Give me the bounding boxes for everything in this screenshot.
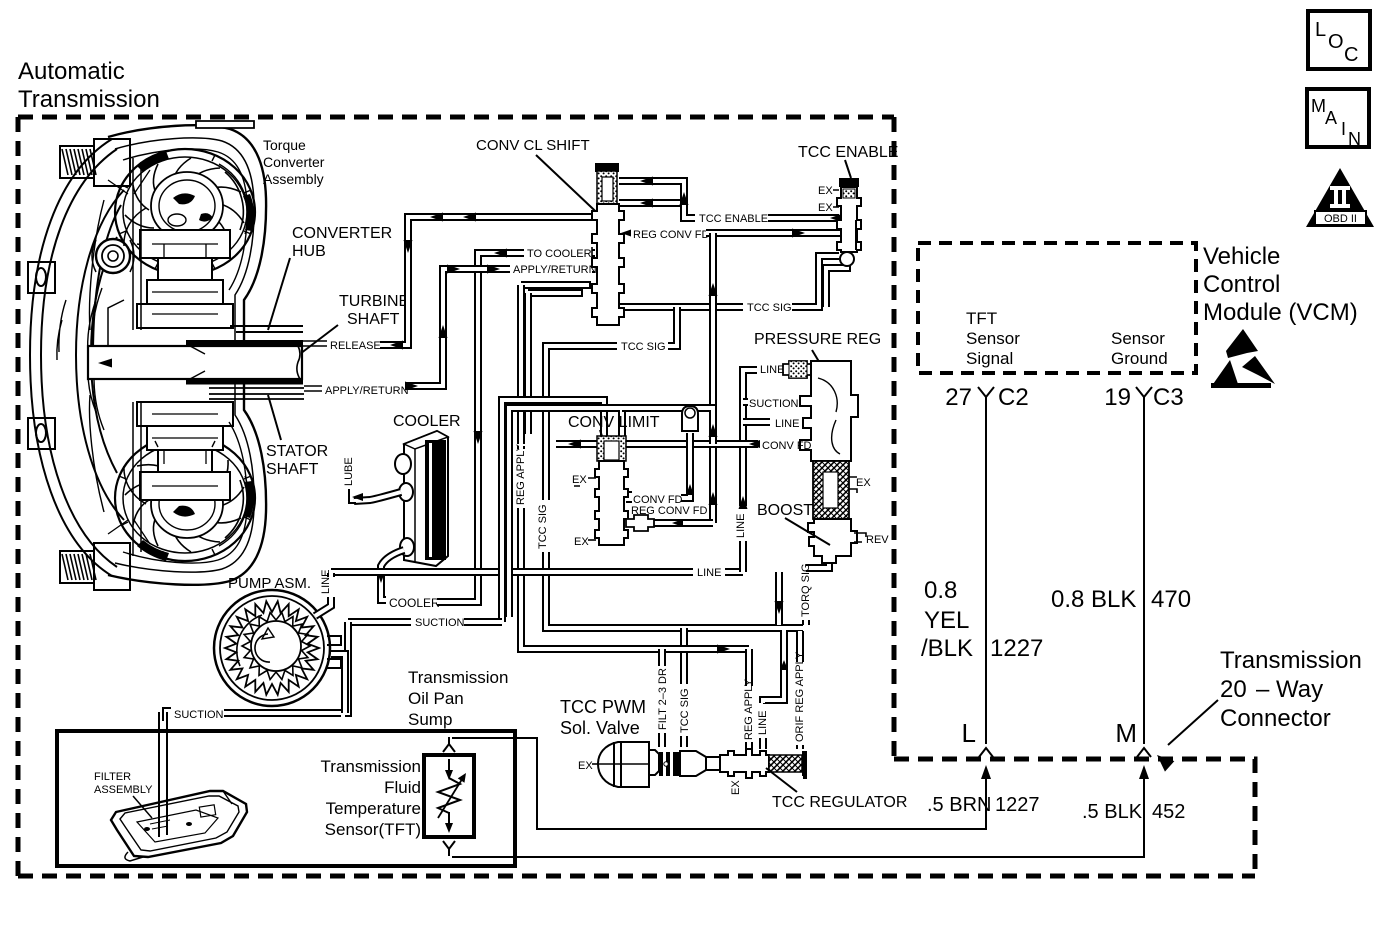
- svg-text:Vehicle: Vehicle: [1203, 243, 1280, 270]
- svg-text:SHAFT: SHAFT: [266, 461, 319, 478]
- svg-text:LINE: LINE: [735, 514, 747, 538]
- svg-text:TCC REGULATOR: TCC REGULATOR: [772, 794, 907, 811]
- svg-text:CONVERTER: CONVERTER: [292, 225, 392, 242]
- svg-text:EX: EX: [818, 202, 833, 214]
- svg-text:EX: EX: [818, 185, 833, 197]
- svg-text:COOLER: COOLER: [393, 413, 461, 430]
- svg-text:.5 BLK: .5 BLK: [1082, 801, 1143, 823]
- svg-text:M: M: [1115, 718, 1137, 748]
- svg-text:Transmission: Transmission: [408, 668, 508, 687]
- svg-text:C3: C3: [1153, 384, 1184, 411]
- svg-text:EX: EX: [856, 477, 871, 489]
- svg-text:CONV FD: CONV FD: [762, 440, 812, 452]
- svg-text:C2: C2: [998, 384, 1029, 411]
- svg-text:Oil Pan: Oil Pan: [408, 689, 464, 708]
- svg-text:L: L: [1315, 19, 1326, 41]
- svg-text:LUBE: LUBE: [343, 457, 355, 486]
- svg-text:REG APPLY: REG APPLY: [743, 678, 755, 740]
- svg-text:TFT: TFT: [966, 309, 997, 328]
- svg-text:SUCTION: SUCTION: [415, 617, 465, 629]
- svg-text:BOOST: BOOST: [757, 502, 813, 519]
- svg-text:YEL: YEL: [924, 607, 969, 634]
- svg-text:EX: EX: [578, 760, 593, 772]
- svg-text:Ground: Ground: [1111, 349, 1168, 368]
- svg-text:EX: EX: [730, 780, 742, 795]
- svg-text:CONV LIMIT: CONV LIMIT: [568, 414, 660, 431]
- svg-text:Sump: Sump: [408, 710, 452, 729]
- svg-text:Sensor: Sensor: [966, 329, 1020, 348]
- svg-text:.5 BRN: .5 BRN: [927, 794, 991, 816]
- svg-text:TCC PWM: TCC PWM: [560, 697, 646, 717]
- svg-text:C: C: [1344, 44, 1358, 66]
- svg-text:Fluid: Fluid: [384, 778, 421, 797]
- svg-text:20: 20: [1220, 676, 1247, 703]
- svg-text:Converter: Converter: [263, 154, 325, 170]
- svg-text:EX: EX: [574, 536, 589, 548]
- svg-text:REG CONV FD: REG CONV FD: [633, 229, 709, 241]
- svg-text:Signal: Signal: [966, 349, 1013, 368]
- svg-text:LINE: LINE: [697, 567, 721, 579]
- svg-text:LINE: LINE: [760, 364, 784, 376]
- svg-text:470: 470: [1151, 586, 1191, 613]
- svg-text:Connector: Connector: [1220, 705, 1331, 732]
- svg-text:27: 27: [945, 384, 972, 411]
- svg-text:Automatic: Automatic: [18, 58, 125, 85]
- svg-text:N: N: [1348, 129, 1361, 149]
- svg-text:TCC SIG: TCC SIG: [747, 302, 792, 314]
- svg-text:1227: 1227: [995, 794, 1040, 816]
- svg-text:CONV CL SHIFT: CONV CL SHIFT: [476, 137, 590, 154]
- svg-text:ASSEMBLY: ASSEMBLY: [94, 784, 153, 796]
- svg-text:Assembly: Assembly: [263, 171, 324, 187]
- svg-text:COOLER: COOLER: [389, 596, 440, 610]
- svg-text:APPLY/RETURN: APPLY/RETURN: [513, 264, 597, 276]
- svg-text:O: O: [1328, 31, 1344, 53]
- svg-text:452: 452: [1152, 801, 1185, 823]
- svg-text:RELEASE: RELEASE: [330, 340, 381, 352]
- svg-text:SUCTION: SUCTION: [174, 709, 224, 721]
- svg-text:TURBINE: TURBINE: [339, 293, 409, 310]
- svg-text:19: 19: [1104, 384, 1131, 411]
- svg-text:LINE: LINE: [757, 711, 769, 735]
- svg-text:HUB: HUB: [292, 243, 326, 260]
- svg-text:Torque: Torque: [263, 137, 306, 153]
- svg-text:SUCTION: SUCTION: [749, 398, 799, 410]
- svg-text:TO COOLER: TO COOLER: [527, 248, 592, 260]
- svg-text:TCC ENABLE: TCC ENABLE: [699, 213, 768, 225]
- svg-text:Sensor: Sensor: [1111, 329, 1165, 348]
- svg-text:Control: Control: [1203, 271, 1280, 298]
- svg-text:SHAFT: SHAFT: [347, 311, 400, 328]
- svg-text:/BLK: /BLK: [921, 635, 973, 662]
- svg-text:Transmission: Transmission: [18, 86, 160, 113]
- svg-text:– Way: – Way: [1256, 676, 1323, 703]
- svg-text:Transmission: Transmission: [321, 757, 421, 776]
- svg-text:0.8: 0.8: [924, 577, 957, 604]
- svg-text:FILT 2–3 DR: FILT 2–3 DR: [657, 668, 669, 730]
- svg-text:Transmission: Transmission: [1220, 647, 1362, 674]
- svg-text:Temperature: Temperature: [326, 799, 421, 818]
- svg-text:LINE: LINE: [775, 418, 799, 430]
- svg-text:I: I: [1341, 119, 1346, 139]
- svg-text:Sensor(TFT): Sensor(TFT): [325, 820, 421, 839]
- svg-text:APPLY/RETURN: APPLY/RETURN: [325, 385, 409, 397]
- svg-text:L: L: [962, 718, 976, 748]
- svg-text:FILTER: FILTER: [94, 771, 131, 783]
- svg-text:ORIF REG APPLY: ORIF REG APPLY: [794, 651, 806, 742]
- svg-text:0.8 BLK: 0.8 BLK: [1051, 586, 1136, 613]
- svg-text:REG APPLY: REG APPLY: [515, 443, 527, 505]
- svg-text:EX: EX: [572, 474, 587, 486]
- svg-text:OBD II: OBD II: [1324, 213, 1357, 225]
- svg-text:M: M: [1311, 96, 1326, 116]
- svg-text:TCC SIG: TCC SIG: [679, 688, 691, 733]
- svg-text:A: A: [1325, 108, 1337, 128]
- svg-text:REV: REV: [866, 534, 889, 546]
- svg-text:TCC ENABLE: TCC ENABLE: [798, 144, 898, 161]
- svg-text:TCC SIG: TCC SIG: [621, 341, 666, 353]
- svg-text:STATOR: STATOR: [266, 443, 328, 460]
- svg-text:1227: 1227: [990, 635, 1043, 662]
- svg-text:TORQ SIG: TORQ SIG: [800, 563, 812, 617]
- svg-text:TCC SIG: TCC SIG: [537, 504, 549, 549]
- svg-text:Sol. Valve: Sol. Valve: [560, 718, 640, 738]
- svg-text:Module (VCM): Module (VCM): [1203, 299, 1358, 326]
- svg-text:PRESSURE REG: PRESSURE REG: [754, 331, 881, 348]
